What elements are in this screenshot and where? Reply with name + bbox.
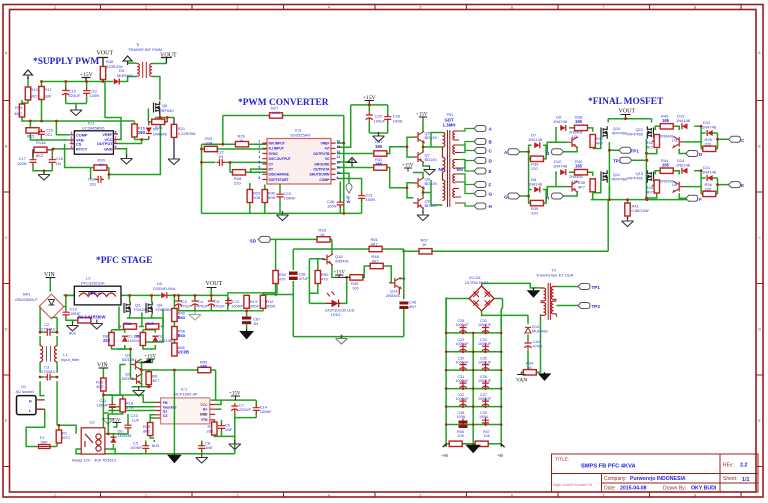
wire D9 R38 branch [556,128,593,142]
diode D8 [534,187,540,193]
wire IC2 left pin COMP [56,121,69,135]
svg-text:4M7: 4M7 [14,111,23,116]
resistor R16 [132,124,137,137]
svg-text:100N: 100N [366,197,376,202]
wire +15V leg to +VI pin [337,105,351,147]
wire IC1 right vcc [211,400,257,404]
svg-text:C3: C3 [163,414,167,418]
svg-text:16: 16 [337,140,341,144]
wire B flag to emitter [564,147,578,152]
flag B [474,139,486,145]
svg-text:Purworejo INDONESIA: Purworejo INDONESIA [630,476,686,482]
resistor R11 [101,378,106,391]
wire flag G tap [459,174,474,194]
ground bottom center [467,444,480,453]
wire E flag to pair box [701,178,728,194]
diode D1 [122,336,128,342]
resistor R29 [247,190,252,203]
frame row dividers left [3,101,10,467]
wire RT/CT pin [53,148,69,150]
svg-text:8K2: 8K2 [31,94,39,99]
wire IC2 output to box [118,140,142,144]
svg-text:+VI: +VI [324,147,329,151]
diode D13 [682,123,688,129]
svg-text:DSEI60-06A: DSEI60-06A [153,286,176,291]
capacitor C13 [62,309,69,318]
wire IC1 left pins [103,395,155,418]
wire RT DISCHARGE with R28 [230,169,267,174]
flag A input [508,149,520,155]
flag E input [729,182,741,188]
svg-text:1000UF: 1000UF [478,323,492,327]
svg-text:1N4148: 1N4148 [528,137,543,142]
resistor R55 [172,343,177,356]
svg-text:0.22R/5W: 0.22R/5W [178,131,196,136]
wire Q7 emitter bottom [423,163,430,167]
resistor R65 [198,367,211,372]
svg-text:6: 6 [511,6,513,10]
diode D14 [682,168,688,174]
wire T2 left top pin to VCC arrow [128,62,137,64]
svg-text:165: 165 [662,163,670,168]
capacitor C9 [142,443,149,452]
wire relay bottom left pin [76,449,115,454]
transistor U3a 2N5401 [567,137,578,148]
wire VCC riser to IC2 VCC pin [105,82,121,140]
ground under Q9 [417,211,429,221]
wire OUTPUTB to R31 [337,147,407,154]
svg-text:NTC: NTC [62,435,70,440]
wire +15V box [351,105,388,136]
wire R6 riser [148,370,150,387]
wire bridge right to primary bottom [495,299,503,309]
IC2 UC2845 box [74,131,113,154]
capacitor C29 [459,343,466,353]
title block texts [553,457,750,492]
svg-text:GBU25M5-F: GBU25M5-F [15,297,38,302]
svg-text:100NF: 100NF [284,196,297,201]
svg-text:IRFP460: IRFP460 [612,177,629,182]
resistor R13 [244,295,249,308]
svg-text:FGA25N: FGA25N [156,307,172,312]
svg-text:1000UF: 1000UF [478,342,492,346]
wire +15V tee relay [113,423,116,428]
wire output filter caps top leads [179,295,212,299]
svg-text:LED1: LED1 [331,313,341,317]
wire socket lower pin to fuse [26,409,57,446]
wire source node down to R20 loop [109,118,160,175]
capacitor C36 [482,380,489,390]
resistor R6 [146,372,151,385]
frame row dividers right [756,101,763,467]
junction dots driver [406,145,425,194]
resistor R21 [171,124,176,137]
svg-text:Bxx: Bxx [178,315,186,320]
wire R37 bottom to gate [593,138,601,149]
resistor R07 gate [146,324,159,329]
wire C19 leads [65,82,67,104]
svg-text:7: 7 [603,494,605,498]
mosfet Q22 [647,126,653,138]
capacitor C30 [459,362,466,372]
resistor R10 [25,87,30,100]
svg-text:2015-04-08: 2015-04-08 [620,486,647,492]
wire black R21 leads [173,118,175,159]
transistor Q15 [322,254,333,265]
terminal +90 [443,444,446,447]
diode D15 [525,327,531,333]
capacitor C8 [198,443,205,452]
svg-text:R24: R24 [155,125,163,130]
svg-text:28K: 28K [207,429,214,434]
svg-text:1: 1 [71,131,73,135]
wire VREF pin to rail [337,143,344,213]
wire bottom rail drop left [607,200,609,252]
wire H flag to emitter [564,191,578,196]
svg-text:47UF: 47UF [299,276,309,281]
wire right leg L1 [52,318,58,382]
svg-text:331: 331 [90,182,97,187]
svg-text:100NF: 100NF [231,304,244,309]
svg-text:100UF: 100UF [374,119,387,124]
svg-text:2: 2 [145,494,147,498]
svg-text:NCP1650 4P: NCP1650 4P [174,392,198,397]
wire Q14 collector riser [399,278,404,280]
capacitor C26 [384,114,391,123]
svg-text:2A3Y3UD39 LED: 2A3Y3UD39 LED [325,309,355,313]
flag F [686,195,698,201]
wire R13 to C87 [246,311,248,329]
svg-text:10B: 10B [253,195,260,200]
wire R56 column [173,295,175,342]
wire Q5 collector top [422,119,424,132]
wire long vertical crossing IC1 [173,397,175,425]
wire emitter mid to TR1 primary top [423,133,443,148]
wire bottom rail [591,199,689,201]
resistor R64 [523,370,536,375]
capacitor C46 [399,302,408,310]
svg-text:BD139: BD139 [425,135,438,140]
wire h-rail row3 [446,369,501,371]
svg-text:W: W [347,199,351,204]
resistor R52 [273,271,278,284]
IC3 SG3525AN box [267,139,331,185]
wire left leg L1 [40,307,45,395]
svg-text:G: G [489,192,493,197]
ground below IC2 gnd pin [121,155,133,165]
flag G [474,191,486,197]
resistor R31 [374,151,387,156]
svg-text:UC2845BN5: UC2845BN5 [82,126,105,131]
ground below R21 [168,155,180,165]
wire riser E box to D14 wire [700,171,702,194]
wire flag E tap [459,160,474,172]
wire relay right pins [105,414,146,454]
svg-text:1000UF: 1000UF [456,397,470,401]
frame column dividers bottom [101,492,742,497]
transistor Q8 BD139 [413,178,424,189]
flag TP2 out [578,303,590,309]
wire filter box [228,293,263,311]
IC2 pin names [76,133,113,152]
svg-text:11: 11 [337,166,341,170]
svg-text:OUTPUTB: OUTPUTB [313,152,330,156]
transistor U5 2N5401 [673,181,684,192]
resistor R12 [260,295,265,308]
svg-text:13: 13 [337,155,341,159]
resistor R7 [212,422,217,435]
wire U3 collector right [678,126,680,130]
wire SD flag to R33 [271,238,332,240]
transistor Q9 BD140 [413,198,424,209]
svg-text:8: 8 [694,494,696,498]
wire loop top [30,120,134,122]
svg-text:D: D [5,328,8,332]
resistor R38 [575,125,588,130]
wire CS pin feed to R20 loop [65,144,91,168]
capacitor C12 [225,298,232,307]
flag H input [552,193,564,199]
svg-text:5.7K: 5.7K [126,405,135,410]
IC3 pin stubs left [262,143,335,179]
wire Q2 base [120,365,126,396]
svg-text:4K7: 4K7 [596,141,604,146]
svg-text:BR1: BR1 [23,292,32,297]
wire rail D0 to VOUT filter [168,294,228,296]
capacitor C28 [459,325,466,335]
wire R19 bottom to loop [22,118,30,122]
wire bridge bottom corner [51,316,53,318]
wire NI input [202,148,268,150]
svg-text:1000UF: 1000UF [478,397,492,401]
ground below C8 [196,454,208,464]
svg-text:Transformer ET DUA: Transformer ET DUA [536,273,574,278]
svg-text:1N: 1N [218,154,223,159]
svg-text:2N5401: 2N5401 [335,259,350,264]
svg-text:R07: R07 [147,321,155,326]
ground below C87 black [241,329,253,339]
resistor R26 [236,142,249,147]
svg-text:TP2: TP2 [592,304,601,309]
resistor R37b [590,179,595,192]
wire cap bottom rail [66,104,87,107]
inductor L2 box [74,286,121,305]
svg-text:SHUTDOWN: SHUTDOWN [310,173,331,177]
svg-text:470UF: 470UF [197,304,210,309]
svg-text:1: 1 [54,6,56,10]
wire VIN2 stem down [102,368,104,378]
ground below C19 [70,106,82,116]
wire black +15V stem [82,78,91,82]
IC3 pin stubs right [331,143,336,179]
svg-text:4N7: 4N7 [409,304,417,309]
svg-text:TR1: TR1 [446,112,454,117]
wire R50 bottom [309,284,317,294]
svg-text:221: 221 [46,132,53,137]
wire R19b drop [150,418,154,442]
transformer TR1 primary winding [443,130,456,207]
svg-text:4: 4 [71,145,73,149]
wire Q6 source rail to R21 [155,116,174,118]
ground below Q2 pair [133,387,145,397]
svg-text:NP: NP [439,167,445,172]
wire Q15 collector [331,249,333,255]
junction dots pwm [200,104,371,215]
ground after R2 [91,320,103,330]
svg-text:IRFP460: IRFP460 [627,176,644,181]
svg-text:2N5401: 2N5401 [386,293,401,298]
svg-text:E: E [741,183,744,188]
svg-text:*SUPPLY PWM: *SUPPLY PWM [33,57,99,67]
wire U3 base right [684,141,701,143]
wire flag A tap [461,129,474,132]
wire SHUTDOWN to bead [337,173,349,183]
flag C [474,148,486,154]
wire Q14 collector column [403,251,405,336]
capacitor C31 [459,380,466,390]
wire +V rail to VOUT node [42,81,104,83]
capacitor C32 [459,398,466,408]
wire left rail [201,144,203,213]
flag G input [508,193,520,199]
resistor R57 [475,441,488,446]
wire R33 drop [331,239,333,249]
relay U2 box [81,428,105,454]
wire R2 to ground [73,319,85,321]
diode D5 [114,79,120,85]
bridge rectifier BR1 [39,294,64,319]
svg-text:BD140: BD140 [122,376,135,381]
svg-text:8K2: 8K2 [36,153,44,158]
svg-text:VOUT: VOUT [160,53,177,59]
transistor Q2 BD139 [131,359,142,370]
wire flag D tap [461,161,474,169]
svg-text:10R: 10R [205,140,212,145]
wire LED cathode riser [341,277,347,303]
capacitor C87 [242,317,251,325]
wire left drop to INV [222,116,224,145]
transistor Q14 [390,278,401,289]
wire U3a collector [576,128,578,132]
wire VIN down to bridge [49,278,51,292]
svg-text:8K2: 8K2 [143,429,151,434]
svg-text:1NF: 1NF [225,427,233,432]
wire Q9 emitter to ground [422,208,424,213]
svg-text:220: 220 [705,187,712,192]
wire left rail [445,297,447,443]
transformer TR1 secondary winding [453,131,455,198]
wire gate drive to Q2 [118,349,130,379]
svg-text:220: 220 [531,211,538,216]
wire Q2 pair collector rail [132,361,152,387]
wire Q14 emitter stub [398,287,400,294]
supply arrow at R10 [24,70,33,79]
svg-text:D: D [758,328,761,332]
svg-text:N.I.INPUT: N.I.INPUT [269,147,285,151]
wire D1 R8 hang [112,327,125,350]
svg-text:*FINAL MOSFET: *FINAL MOSFET [588,97,664,107]
wire Q22 source down [645,139,647,200]
wire center rail [472,333,474,444]
wire R17 bottom to loop top [41,99,43,121]
svg-text:R15: R15 [27,134,35,139]
wire C flag to pair box [701,133,728,149]
wire GROUND pin arrow [337,159,352,162]
svg-text:-90: -90 [497,453,504,458]
svg-text:1K: 1K [99,162,104,167]
resistor R17 [39,87,44,100]
resistor R62 gate [124,324,137,329]
wire bridge left corner [39,306,41,309]
svg-text:B+: B+ [203,408,207,412]
svg-text:E: E [489,169,492,174]
svg-text:Sheet:: Sheet: [723,476,737,482]
resistor R48 [370,263,383,268]
wire h-rail row6 [446,424,501,426]
wire gate resistor rows [119,307,163,327]
flag D [686,151,698,157]
svg-text:F: F [489,183,492,188]
wire mosfet drains [130,295,152,302]
svg-text:C: C [758,236,761,240]
svg-text:REv:: REv: [723,463,734,469]
svg-text:GND: GND [104,147,113,151]
svg-text:8: 8 [694,6,696,10]
svg-text:VTN: VTN [201,418,208,422]
diode D16 [110,437,116,443]
resistor R32 [374,165,387,170]
capacitor C15 [38,129,45,138]
svg-text:5: 5 [115,145,117,149]
wire black VOUT right stem [161,58,172,64]
svg-text:BU9: BU9 [69,332,76,336]
wire Q11 source down [608,186,610,200]
wire R50 top [317,259,319,271]
resistor R20 [94,165,107,170]
wire C22 down branch [229,162,231,172]
svg-text:*PWM CONVERTER: *PWM CONVERTER [238,98,329,108]
wire +15V to Q2 area [136,360,153,363]
junction dots bank [445,332,503,426]
svg-text:470U: 470U [533,344,543,349]
wire bottom rail LED [293,336,404,338]
wire Q8Q9 mid to TR1 primary bottom [423,180,443,205]
IC3 pin numbers [259,140,341,180]
flag D [474,158,486,164]
wire riser C box to D13 wire [700,126,702,149]
wire C26b drop [339,182,341,214]
terminal -90 [501,444,504,447]
svg-text:1000UF: 1000UF [478,360,492,364]
svg-text:3: 3 [71,140,73,144]
wire G input pair [520,187,567,204]
resistor R40c [172,309,177,322]
wire C20 leads [86,82,88,104]
svg-text:6: 6 [259,166,261,170]
svg-text:8: 8 [259,176,261,180]
wire h-rail row4 [446,388,501,390]
svg-text:18K: 18K [44,94,51,99]
svg-text:OUTPUTA: OUTPUTA [313,168,330,172]
junction dots pfc [39,250,406,435]
svg-text:7: 7 [603,6,605,10]
diode D12 [707,130,713,136]
wire IC1 right B+ [215,408,221,410]
svg-text:R10: R10 [31,87,39,92]
flag E [474,168,486,174]
svg-text:5: 5 [420,494,422,498]
svg-text:1K: 1K [527,365,532,370]
